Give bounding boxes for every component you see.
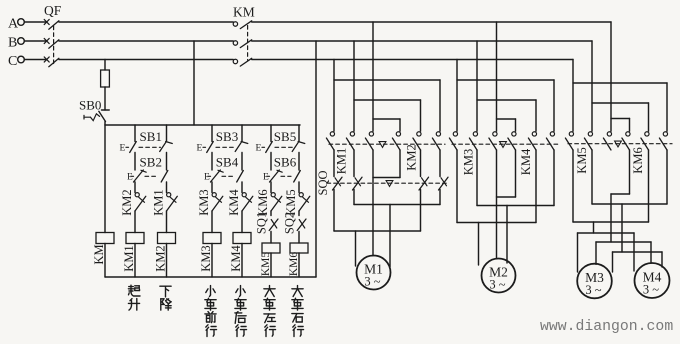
wire (298, 211, 300, 216)
contactor KM5 main contacts (569, 132, 573, 136)
wire (241, 153, 243, 171)
wire (298, 232, 300, 244)
circuit breaker QF pole (44, 19, 49, 24)
wire: tie 1-5 (457, 222, 536, 224)
wire: pole3-pole4 tie (629, 150, 631, 194)
limit switch SQ2 NC contact (297, 219, 306, 231)
label 大车左行 bridge left (264, 286, 275, 297)
svg-text:SB0: SB0 (79, 98, 101, 113)
wire (166, 182, 168, 193)
svg-text:E: E (127, 173, 133, 183)
svg-text:E: E (204, 173, 210, 183)
svg-text:KM2: KM2 (154, 245, 168, 271)
circuit breaker QF pole (44, 57, 49, 62)
wire: B tap to KM3 pole2 and KM4 pole2 (476, 41, 478, 131)
wire: B tap to KM1 pole2 and KM2 pole2 (353, 41, 355, 131)
wire (24, 40, 45, 42)
pushbutton SB4 NO contact (237, 171, 244, 183)
svg-text:SB4: SB4 (216, 155, 239, 170)
svg-text:SB2: SB2 (140, 155, 162, 170)
svg-text:KM5: KM5 (260, 252, 272, 277)
coil KM5 (262, 243, 280, 253)
contactor KM6 main contacts (626, 132, 630, 136)
wire: distribution row 1 (578, 232, 635, 234)
motor M4 (635, 263, 670, 298)
wire (134, 182, 136, 193)
svg-text:SB1: SB1 (140, 129, 162, 144)
svg-text:KM: KM (92, 244, 106, 264)
wire (134, 211, 136, 233)
svg-text:KM2: KM2 (404, 144, 418, 170)
svg-text:E: E (197, 144, 203, 154)
svg-text:KM3: KM3 (199, 245, 213, 271)
wire: distribution row 3 (613, 251, 663, 253)
svg-text:A: A (8, 17, 19, 32)
wire: KM coil branch (104, 125, 106, 233)
wire (211, 244, 213, 278)
wire: pole bottoms (572, 150, 574, 222)
svg-text:KM4: KM4 (229, 245, 243, 272)
pushbutton SB3 NC contact (235, 142, 241, 151)
KM mechanical link (247, 26, 249, 61)
wire: pole bottoms (333, 190, 335, 232)
svg-text:KM3: KM3 (197, 189, 211, 215)
wire (211, 211, 213, 233)
contactor KM5 NC interlock contact (299, 193, 303, 197)
svg-text:SQ1: SQ1 (255, 212, 269, 234)
svg-text:www.diangon.com: www.diangon.com (540, 319, 673, 335)
wire (270, 153, 272, 171)
KM5-KM6 interlock link (568, 143, 672, 145)
pushbutton SB6 NO contact (294, 171, 301, 183)
contactor KM pole (233, 59, 237, 63)
motor M3 (577, 264, 612, 299)
wire column left from rail (134, 125, 136, 142)
wire (166, 244, 168, 278)
svg-text:C: C (8, 54, 17, 69)
coil KM3 (203, 233, 221, 244)
mechanical interlock (615, 141, 622, 147)
wire: A tap to KM3 pole3 and KM4 pole1 (496, 22, 498, 131)
contactor KM1 NC interlock contact (167, 193, 171, 197)
wire (270, 253, 272, 277)
wire (166, 153, 168, 171)
wire: A tap to KM1 pole3 and KM2 pole1 (372, 22, 374, 131)
wire (211, 153, 213, 171)
wire (241, 244, 243, 278)
contactor KM4 NC interlock contact (242, 193, 246, 197)
coil KM (96, 233, 114, 244)
contactor KM pole (233, 41, 237, 45)
contactor KM2 main contacts (396, 132, 400, 136)
KM3-KM4 interlock link (452, 143, 559, 145)
label 起升 hoist up (128, 285, 140, 296)
mechanical interlock (386, 181, 393, 187)
svg-text:KM3: KM3 (461, 149, 475, 175)
wire: pole3-pole4 tie (399, 150, 401, 178)
wire (134, 244, 136, 278)
svg-text:3 ~: 3 ~ (364, 275, 380, 289)
svg-text:E: E (263, 173, 269, 183)
wire: control top rail (105, 124, 300, 126)
limit switch SQ1 NC contact (269, 219, 278, 231)
wire column right from rail (298, 125, 300, 142)
svg-text:3 ~: 3 ~ (489, 278, 505, 292)
label 大车右行 bridge right (292, 286, 303, 297)
svg-text:KM4: KM4 (519, 148, 533, 175)
svg-text:SB6: SB6 (274, 155, 297, 170)
pushbutton SB1 NC contact (160, 142, 166, 151)
wire column left from rail (211, 125, 213, 142)
wire (270, 211, 272, 216)
svg-text:KM: KM (233, 5, 255, 20)
svg-text:SQ2: SQ2 (283, 212, 297, 234)
wire: phase A bus (59, 21, 233, 23)
contactor KM6 NC interlock contact (271, 193, 275, 197)
wire (24, 59, 45, 61)
wire: B bus end to KM5 pole2 and KM6 pole2 (591, 41, 593, 131)
wire (270, 182, 272, 193)
svg-text:3 ~: 3 ~ (643, 283, 659, 297)
wire: C bus end to KM5 pole1 and KM6 pole3 (572, 60, 574, 132)
svg-text:SB3: SB3 (216, 129, 238, 144)
wire column left from rail (270, 125, 272, 142)
svg-text:KM6: KM6 (256, 189, 270, 215)
QF mechanical link (53, 26, 55, 64)
contactor KM4 main contacts (512, 132, 516, 136)
wire: C tap to KM3 pole1 and KM4 pole3 (456, 60, 458, 132)
wire column right from rail (166, 125, 168, 142)
svg-text:KM1: KM1 (152, 189, 166, 215)
label 下降 lower (160, 286, 171, 297)
svg-text:KM2: KM2 (120, 189, 134, 215)
limit switch SQ0 link (327, 182, 447, 184)
wire: pole3-pole4 tie (515, 150, 517, 197)
contactor KM pole (233, 22, 237, 26)
svg-text:E: E (120, 144, 126, 154)
svg-text:SB5: SB5 (274, 129, 296, 144)
wire (241, 182, 243, 193)
mechanical interlock (379, 142, 386, 148)
wire: tie 2-6 (477, 205, 554, 207)
wire: pole bottoms (456, 150, 458, 223)
svg-text:KM4: KM4 (227, 189, 241, 216)
wire: B-phase tap to control rail (193, 41, 195, 125)
contactor KM2 NC interlock contact (135, 193, 139, 197)
wire: phase B bus (59, 40, 233, 42)
pushbutton SB0 (stop button, NC) (102, 109, 110, 111)
label 小车后行 trolley back (236, 286, 245, 297)
pushbutton SB2 NO contact (161, 171, 168, 183)
wire (241, 211, 243, 233)
coil KM4 (233, 233, 251, 244)
wire (211, 182, 213, 193)
wire: tie 2-6 (354, 204, 440, 206)
wire: B-phase tap to bottom rail (315, 41, 317, 277)
motor M1 (357, 256, 391, 290)
wire (298, 253, 300, 277)
wire: distribution row 2 (596, 241, 651, 243)
wire: A bus end to KM5 pole3 and KM6 pole1 (610, 22, 612, 131)
svg-text:KM1: KM1 (334, 148, 348, 174)
svg-text:3 ~: 3 ~ (585, 283, 601, 297)
limit switch SQ0 contacts (333, 150, 335, 177)
fuse FU (104, 60, 106, 71)
coil KM1 (126, 233, 144, 244)
svg-text:B: B (8, 36, 17, 51)
svg-text:QF: QF (44, 3, 62, 18)
svg-text:KM6: KM6 (631, 147, 645, 173)
circuit breaker QF pole (44, 38, 49, 43)
KM1-KM2 interlock link (329, 143, 445, 145)
wire: tie 2-6 (592, 203, 667, 205)
wire (166, 211, 168, 233)
mechanical interlock (500, 142, 507, 148)
wire (134, 153, 136, 171)
coil KM6 (290, 243, 308, 253)
wire: C tap to KM1 pole1 and KM2 pole3 (333, 60, 335, 132)
svg-text:KM5: KM5 (575, 147, 589, 173)
svg-text:KM1: KM1 (122, 245, 136, 271)
wire column right from rail (241, 125, 243, 142)
svg-text:KM5: KM5 (284, 189, 298, 215)
wire: control bottom rail (105, 276, 316, 278)
svg-text:E: E (256, 144, 262, 154)
wire: tie 1-5 (573, 221, 649, 223)
wire (24, 21, 45, 23)
label 小车前行 trolley fwd (206, 286, 215, 297)
contactor KM3 NC interlock contact (212, 193, 216, 197)
wire (298, 153, 300, 171)
contactor KM3 main contacts (453, 132, 457, 136)
contactor KM1 main contacts (330, 132, 334, 136)
pushbutton SB5 NC contact (292, 142, 298, 151)
wire (270, 232, 272, 244)
motor M2 (482, 259, 516, 293)
wire: tie 1-5 (334, 230, 421, 232)
wire: phase C bus (59, 59, 233, 61)
svg-text:KM6: KM6 (288, 252, 300, 277)
svg-text:SQO: SQO (316, 170, 330, 195)
wire (298, 182, 300, 193)
coil KM2 (158, 233, 176, 244)
